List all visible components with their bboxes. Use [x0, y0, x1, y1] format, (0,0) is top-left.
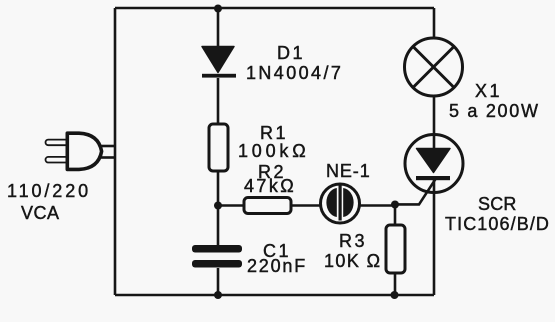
- svg-text:NE-1: NE-1: [326, 161, 371, 181]
- svg-text:10K Ω: 10K Ω: [324, 251, 381, 271]
- svg-text:R3: R3: [339, 231, 367, 251]
- svg-text:1N4004/7: 1N4004/7: [246, 63, 343, 83]
- svg-text:R1: R1: [260, 123, 288, 143]
- svg-text:D1: D1: [277, 43, 305, 63]
- svg-text:X1: X1: [475, 81, 502, 101]
- svg-text:SCR: SCR: [478, 194, 517, 214]
- svg-text:TIC106/B/D: TIC106/B/D: [445, 214, 550, 234]
- svg-text:110/220: 110/220: [7, 181, 91, 201]
- svg-text:5 a 200W: 5 a 200W: [449, 101, 540, 121]
- svg-text:47kΩ: 47kΩ: [244, 176, 296, 196]
- svg-text:VCA: VCA: [21, 203, 60, 223]
- svg-text:220nF: 220nF: [247, 256, 307, 276]
- svg-text:100kΩ: 100kΩ: [238, 141, 310, 161]
